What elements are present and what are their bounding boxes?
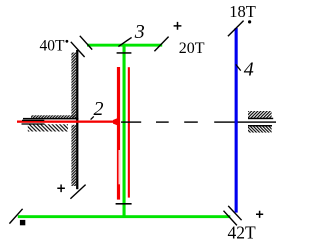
shaft 2 arrowhead hub [113,118,118,126]
leader slash label 4 [236,64,241,70]
frame wall [76,50,78,189]
left bearing upper line [23,118,79,120]
plus mark bottom right (42T side) [256,211,263,218]
right bearing hatch lower block [248,125,272,132]
frame wall hatching lower [71,125,76,186]
left bearing lower hatch [28,124,68,131]
shaft 4 over centerline [235,121,238,124]
centerline dash 1 [121,121,141,122]
bearing tick on shaft 3 bottom [116,203,132,205]
gear mesh slash wall top (40T) [71,42,85,57]
gear mesh double slash 42T lower [224,211,237,226]
bottom green arm [18,215,231,218]
left bearing short line above shaft [22,120,44,121]
svg-text:20T: 20T [179,40,205,57]
gear rim red right (on shaft 2) [128,67,130,197]
shaft 3 top horizontal (green) [87,44,162,47]
bearing tick on shaft 3 top [117,52,132,54]
leader slash label 2 [91,116,94,119]
anchor square bottom-left [20,220,25,225]
shaft 4 (blue) [235,28,238,213]
svg-text:42T: 42T [228,222,257,242]
gear mesh slash wall bottom [70,185,85,199]
centerline dash 2 [156,121,169,122]
dot under 18T [248,20,251,23]
gear rim red left (on shaft 2) [117,67,120,200]
shaft 3 vertical (green) [123,44,126,218]
gear mesh double slash 42T upper [228,206,241,220]
frame wall hatching upper [71,53,76,119]
gear mesh slash shaft 4 top (18T) [228,21,244,37]
bearing hatch above left bearing line [31,115,76,118]
svg-text:18T: 18T [229,2,256,21]
gear mesh slash top-left green end [80,36,92,50]
left bearing short line below shaft [22,123,45,124]
shaft 2 (red input shaft) [17,121,114,123]
leader slash label 3 [118,37,131,46]
right bearing upper edge line [248,118,273,120]
plus mark top (20T side) [174,22,182,30]
gear mesh slash green right end (20T) [154,37,168,52]
svg-text:2: 2 [94,98,104,120]
svg-text:3: 3 [134,21,145,43]
svg-text:4: 4 [244,59,254,81]
centerline right solid segment [214,121,276,122]
dot after 40T [66,40,69,43]
svg-text:40T: 40T [40,38,66,55]
gear rim red left white core [119,150,120,184]
gear mesh slash bottom-left green end [9,209,22,224]
plus mark left wall bottom [57,185,65,193]
right bearing lower edge line [248,125,272,127]
centerline dash 3 [184,121,198,122]
right bearing hatch upper block [248,111,272,119]
